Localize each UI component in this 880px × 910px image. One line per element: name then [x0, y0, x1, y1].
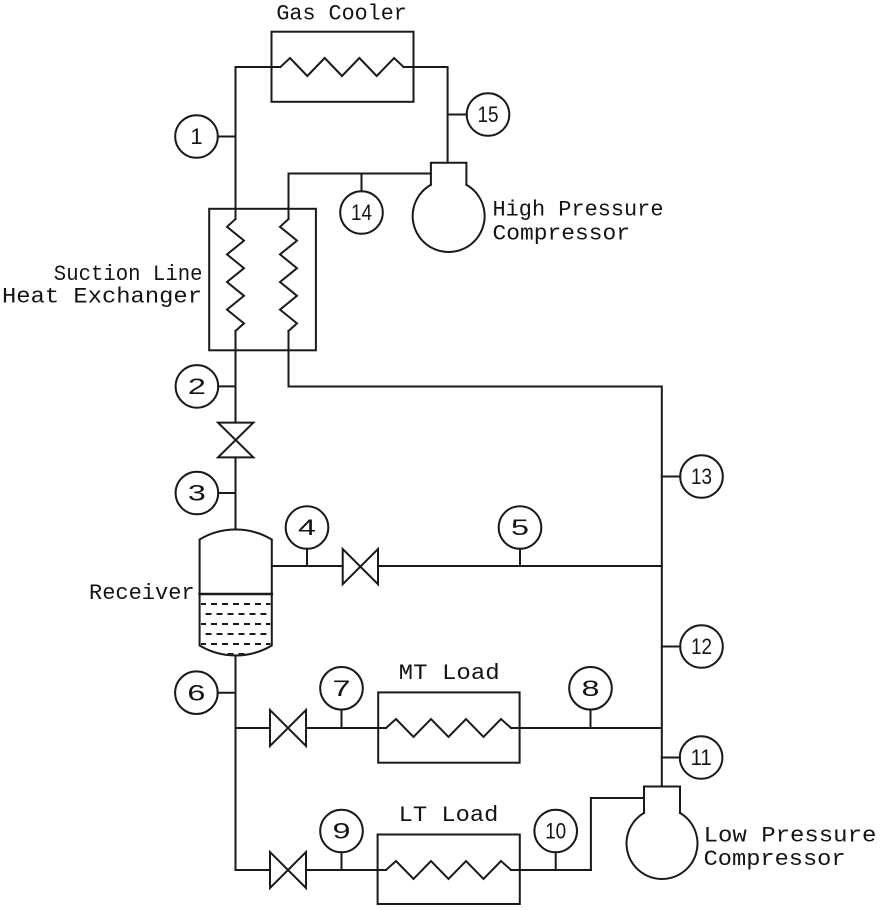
svg-text:Compressor: Compressor [493, 222, 631, 247]
svg-text:Compressor: Compressor [704, 847, 846, 872]
svg-text:12: 12 [691, 634, 712, 659]
svg-text:Heat Exchanger: Heat Exchanger [2, 285, 202, 310]
svg-text:Suction Line: Suction Line [54, 262, 203, 287]
svg-text:9: 9 [333, 819, 351, 844]
svg-text:7: 7 [333, 676, 351, 701]
svg-text:13: 13 [691, 464, 712, 489]
svg-text:5: 5 [511, 515, 529, 540]
svg-text:6: 6 [187, 680, 205, 705]
svg-text:8: 8 [582, 676, 600, 701]
svg-text:2: 2 [188, 374, 206, 399]
svg-text:1: 1 [190, 124, 202, 149]
svg-text:15: 15 [478, 102, 499, 127]
svg-text:LT Load: LT Load [399, 803, 499, 828]
svg-text:Receiver: Receiver [89, 581, 195, 606]
svg-text:MT Load: MT Load [399, 661, 500, 686]
svg-text:Gas Cooler: Gas Cooler [276, 1, 406, 26]
svg-text:14: 14 [351, 200, 372, 225]
svg-text:11: 11 [691, 745, 712, 770]
svg-text:4: 4 [298, 515, 316, 540]
svg-text:Low Pressure: Low Pressure [704, 824, 877, 849]
svg-text:3: 3 [188, 481, 206, 506]
svg-text:High Pressure: High Pressure [493, 198, 664, 223]
svg-text:10: 10 [545, 819, 566, 844]
